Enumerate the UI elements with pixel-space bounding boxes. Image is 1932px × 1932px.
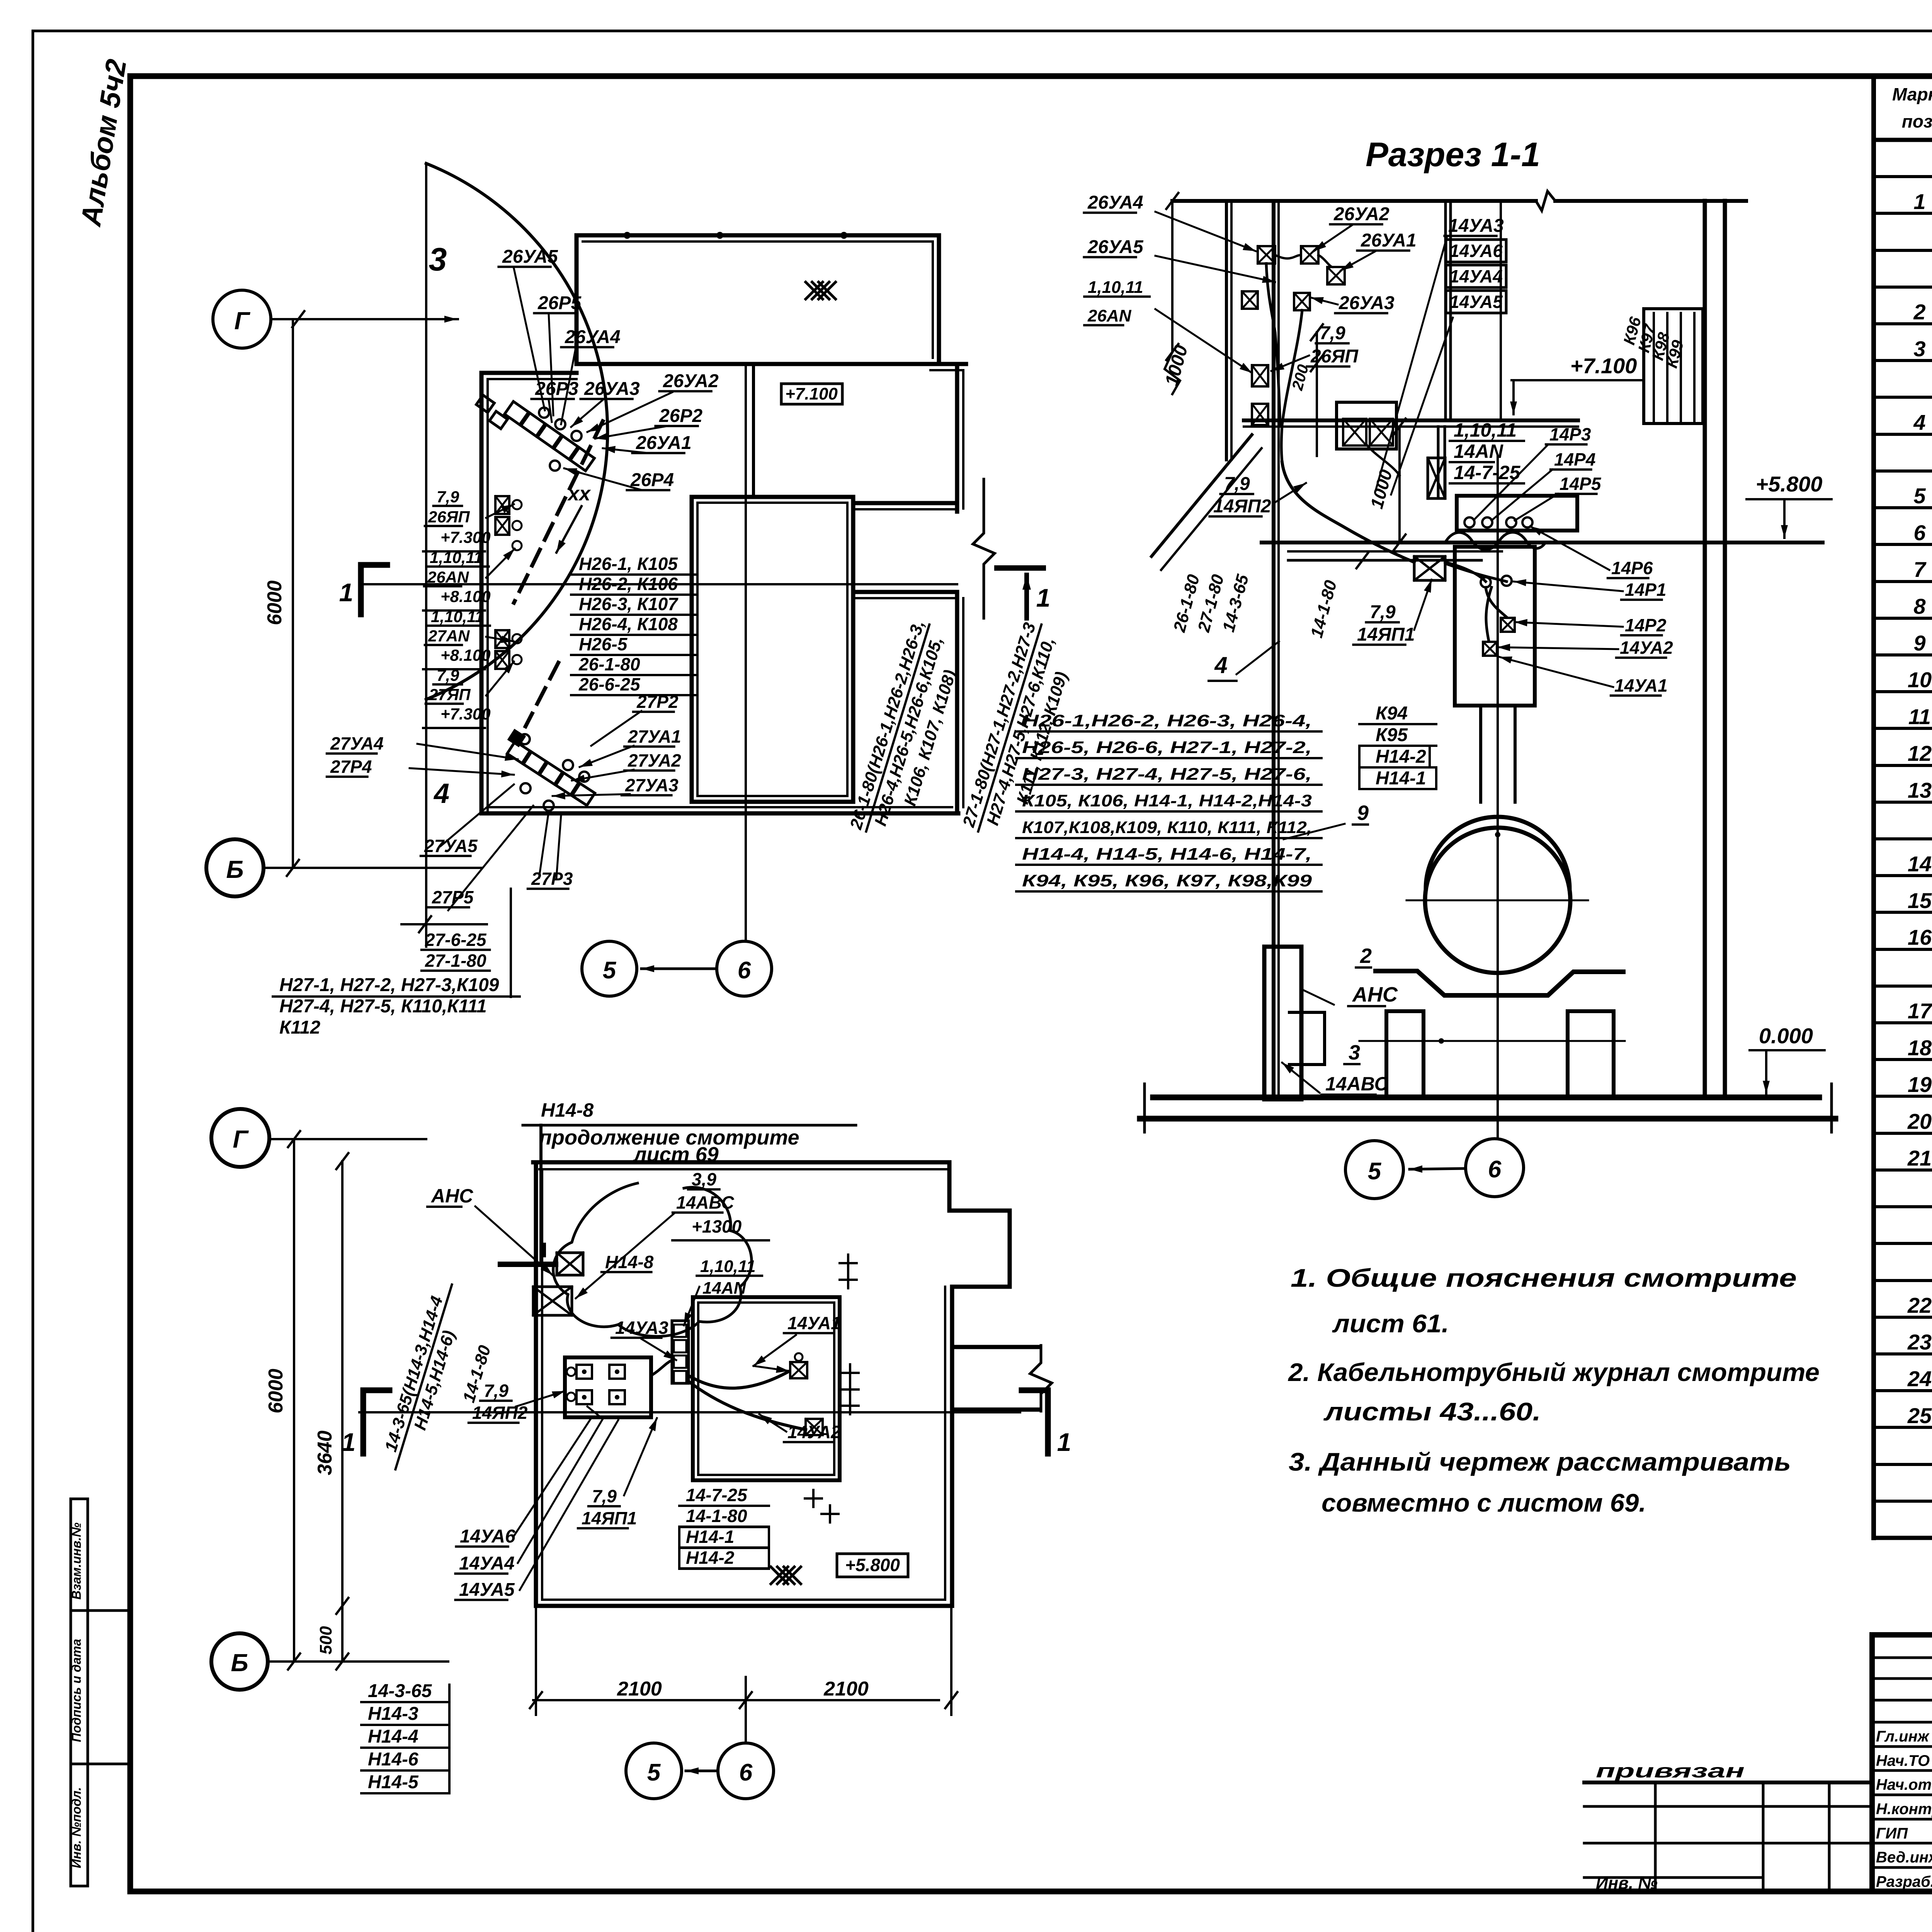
axis 6 line (view1) bbox=[745, 364, 747, 941]
svg-text:2: 2 bbox=[1360, 944, 1372, 968]
svg-text:14-7-25: 14-7-25 bbox=[1454, 462, 1521, 483]
svg-text:6: 6 bbox=[739, 1759, 753, 1786]
cloud boundary (view2) bbox=[553, 1183, 752, 1337]
svg-text:+7.100: +7.100 bbox=[785, 384, 838, 403]
bottom dimension 2100+2100 (view2) bbox=[533, 1699, 939, 1701]
room top wall (view2) bbox=[533, 1160, 949, 1165]
svg-text:4: 4 bbox=[1214, 652, 1227, 678]
svg-text:Разрез 1-1: Разрез 1-1 bbox=[1366, 135, 1540, 173]
svg-text:Инв. №: Инв. № bbox=[1596, 1874, 1658, 1893]
svg-text:Н26-5, Н26-6, Н27-1, Н27-2,: Н26-5, Н26-6, Н27-1, Н27-2, bbox=[1022, 738, 1312, 757]
svg-text:27АN: 27АN bbox=[428, 627, 470, 645]
svg-text:26УА3: 26УА3 bbox=[584, 379, 640, 399]
rotated cable group 26-1-80 (view1) bbox=[846, 618, 971, 845]
svg-text:1: 1 bbox=[1913, 189, 1925, 214]
top chord line bbox=[1172, 199, 1536, 203]
svg-text:Н26-5: Н26-5 bbox=[579, 634, 628, 654]
wall connector boxes 27ЯП (view1) bbox=[495, 630, 509, 648]
lower column pair bbox=[1437, 427, 1440, 496]
svg-text:+5.800: +5.800 bbox=[845, 1555, 900, 1575]
axis circle Б (view1) bbox=[206, 839, 264, 896]
svg-text:9: 9 bbox=[1913, 631, 1925, 655]
svg-text:Н.контр: Н.контр bbox=[1876, 1801, 1932, 1818]
svg-text:3: 3 bbox=[429, 241, 447, 277]
svg-text:Н14-1: Н14-1 bbox=[1376, 768, 1426, 789]
svg-text:Г: Г bbox=[234, 307, 250, 335]
svg-text:1: 1 bbox=[1057, 1428, 1071, 1456]
break mark (view1) bbox=[973, 479, 995, 618]
svg-text:26-6-25: 26-6-25 bbox=[578, 674, 641, 694]
section flag 1 right (view2) bbox=[1045, 1390, 1051, 1454]
svg-text:Н14-2: Н14-2 bbox=[686, 1548, 735, 1568]
equipment pit rect (view1) bbox=[692, 497, 853, 802]
x-box 14УА1 (view2) bbox=[790, 1362, 807, 1378]
dim 1000 left bbox=[1171, 201, 1173, 352]
dimension 6000 (view2) bbox=[293, 1139, 295, 1662]
svg-text:Н26-1,Н26-2, Н26-3, Н26-4,: Н26-1,Н26-2, Н26-3, Н26-4, bbox=[1022, 711, 1312, 730]
svg-text:14Р1: 14Р1 bbox=[1625, 580, 1666, 600]
dimension 3640/500 (view2) bbox=[341, 1161, 344, 1662]
svg-text:Нач.ТО: Нач.ТО bbox=[1876, 1752, 1930, 1769]
svg-text:8: 8 bbox=[1913, 594, 1926, 618]
axis arrow 5-6 (view2) bbox=[686, 1770, 718, 1772]
wall double left bbox=[1272, 201, 1276, 1097]
svg-text:совместно с листом 69.: совместно с листом 69. bbox=[1321, 1488, 1646, 1517]
svg-text:1,10,11: 1,10,11 bbox=[1088, 278, 1143, 297]
svg-text:+8.100: +8.100 bbox=[440, 587, 491, 605]
svg-text:27УА3: 27УА3 bbox=[625, 775, 679, 795]
hatch symbol (view1) bbox=[806, 282, 835, 299]
cables (view2) bbox=[689, 1372, 788, 1388]
svg-text:26УА1: 26УА1 bbox=[636, 433, 692, 453]
svg-text:7,9: 7,9 bbox=[592, 1486, 617, 1506]
axis line Г (view1) bbox=[271, 318, 458, 320]
svg-text:14Р6: 14Р6 bbox=[1611, 558, 1653, 578]
level box +5.800 (view2) bbox=[837, 1554, 908, 1577]
АНС cabinet bbox=[1264, 947, 1301, 1099]
level box +7.100 (view1) bbox=[781, 384, 842, 404]
svg-text:26УА4: 26УА4 bbox=[1087, 192, 1143, 213]
svg-text:14АВС: 14АВС bbox=[1325, 1073, 1389, 1095]
svg-text:26УА2: 26УА2 bbox=[1333, 204, 1389, 224]
axis arrow 5-6 (view1) bbox=[641, 968, 717, 970]
corridor wall top (view1) bbox=[853, 501, 957, 505]
svg-text:2: 2 bbox=[1913, 300, 1925, 324]
svg-text:Н14-3: Н14-3 bbox=[368, 1704, 418, 1724]
svg-text:7,9: 7,9 bbox=[437, 488, 459, 506]
svg-text:+7.300: +7.300 bbox=[440, 528, 491, 546]
dim 1000 mid bbox=[1398, 427, 1401, 543]
rotated cable group 14-3-65 (view2) bbox=[377, 1279, 472, 1476]
svg-text:К94: К94 bbox=[1376, 703, 1408, 724]
svg-text:К94, К95, К96, К97, К98,К99: К94, К95, К96, К97, К98,К99 bbox=[1022, 871, 1312, 890]
svg-text:14АN: 14АN bbox=[702, 1279, 747, 1298]
svg-text:26ЯП: 26ЯП bbox=[1310, 346, 1359, 367]
svg-text:поз.: поз. bbox=[1902, 111, 1932, 131]
svg-text:22: 22 bbox=[1907, 1293, 1932, 1317]
svg-text:Н14-2: Н14-2 bbox=[1376, 747, 1426, 767]
svg-text:12: 12 bbox=[1908, 741, 1932, 765]
axis circle 5 (section) bbox=[1345, 1141, 1403, 1199]
room bottom wall (view2) bbox=[536, 1604, 952, 1608]
inventory strip left of title block bbox=[1584, 1781, 1872, 1784]
floor +5.800 bbox=[1262, 541, 1823, 544]
svg-text:14АВС: 14АВС bbox=[676, 1192, 734, 1213]
connector strip (view2) bbox=[672, 1321, 689, 1383]
box 14ЯП1 bbox=[1414, 556, 1445, 580]
svg-text:23: 23 bbox=[1907, 1330, 1932, 1354]
support block right bbox=[1568, 1011, 1614, 1097]
svg-text:Н27-3, Н27-4, Н27-5, Н27-6,: Н27-3, Н27-4, Н27-5, Н27-6, bbox=[1022, 765, 1312, 784]
svg-text:+5.800: +5.800 bbox=[1756, 472, 1823, 496]
svg-text:5: 5 bbox=[1913, 484, 1926, 508]
svg-text:10: 10 bbox=[1908, 668, 1932, 692]
svg-text:7,9: 7,9 bbox=[484, 1381, 509, 1401]
axis line Г (view2) bbox=[269, 1138, 426, 1140]
center thin line upper bbox=[1500, 201, 1502, 420]
svg-text:19: 19 bbox=[1908, 1072, 1932, 1097]
svg-text:3: 3 bbox=[1913, 337, 1925, 361]
svg-text:14Р2: 14Р2 bbox=[1625, 615, 1667, 635]
svg-text:27УА4: 27УА4 bbox=[330, 733, 384, 753]
svg-text:Инв. №подл.: Инв. №подл. bbox=[69, 1787, 83, 1868]
rotated cable group 27-1-80 (view1) bbox=[959, 619, 1083, 844]
svg-text:15: 15 bbox=[1908, 888, 1932, 913]
svg-text:1,10,11: 1,10,11 bbox=[430, 548, 483, 566]
svg-text:1: 1 bbox=[339, 578, 354, 607]
room bottom wall (view1) bbox=[481, 811, 958, 816]
wires below floor bbox=[1445, 562, 1507, 582]
svg-text:Подпись и дата: Подпись и дата bbox=[69, 1639, 83, 1742]
svg-text:24: 24 bbox=[1907, 1367, 1932, 1391]
column right bbox=[1703, 201, 1707, 1097]
svg-text:14-3-65: 14-3-65 bbox=[368, 1681, 432, 1701]
svg-text:9: 9 bbox=[1357, 801, 1369, 825]
svg-text:14УА6: 14УА6 bbox=[460, 1526, 515, 1547]
svg-text:Н14-4: Н14-4 bbox=[368, 1726, 418, 1747]
inner hall rect (view2) bbox=[693, 1297, 840, 1480]
svg-text:Н14-5: Н14-5 bbox=[368, 1772, 419, 1793]
svg-text:27УА1: 27УА1 bbox=[628, 726, 681, 747]
svg-text:27-1-80: 27-1-80 bbox=[425, 951, 486, 971]
parts table grid bbox=[1871, 76, 1876, 1538]
wall connector boxes 26ЯП (view1) bbox=[495, 496, 509, 514]
room right wall upper (view1) bbox=[955, 367, 959, 512]
svg-text:Н26-1, К105: Н26-1, К105 bbox=[579, 554, 678, 574]
svg-text:Вед.инж: Вед.инж bbox=[1876, 1849, 1932, 1866]
axis circle 6 (view2) bbox=[718, 1743, 774, 1799]
svg-text:7,9: 7,9 bbox=[1320, 323, 1345, 344]
push-button post cluster 27 (view1) bbox=[507, 742, 595, 806]
saddle bbox=[1376, 971, 1623, 995]
section flag 1 right (view1) bbox=[997, 565, 1043, 571]
svg-text:5: 5 bbox=[603, 957, 617, 984]
ground line bbox=[1153, 1095, 1819, 1100]
svg-text:привязан: привязан bbox=[1596, 1760, 1745, 1782]
svg-text:13: 13 bbox=[1908, 778, 1932, 802]
svg-text:3,9: 3,9 bbox=[692, 1169, 716, 1189]
svg-text:18: 18 bbox=[1908, 1036, 1932, 1060]
axis circle 5 (view2) bbox=[626, 1743, 682, 1799]
svg-text:26УА4: 26УА4 bbox=[565, 327, 621, 347]
axis arrow 5-6 (section) bbox=[1410, 1168, 1466, 1169]
svg-text:17: 17 bbox=[1908, 999, 1932, 1023]
section line 1-1 (view1) bbox=[359, 583, 957, 585]
dimension 6000 (view1) bbox=[292, 319, 294, 868]
svg-text:14УА1: 14УА1 bbox=[787, 1313, 841, 1333]
svg-text:14ЯП1: 14ЯП1 bbox=[1357, 624, 1415, 645]
break mark (view2) bbox=[1030, 1345, 1052, 1411]
room left wall (view2) bbox=[534, 1162, 538, 1606]
svg-text:14УА6: 14УА6 bbox=[1449, 241, 1503, 261]
svg-text:Б: Б bbox=[231, 1649, 248, 1677]
svg-text:3. Данный чертеж рассматрива: 3. Данный чертеж рассматривать bbox=[1289, 1447, 1791, 1476]
svg-text:1,10,11: 1,10,11 bbox=[700, 1257, 756, 1276]
svg-text:4: 4 bbox=[1913, 410, 1925, 434]
shaft wall left bbox=[1225, 201, 1228, 460]
svg-text:Н14-8: Н14-8 bbox=[541, 1099, 594, 1121]
room right wall lower (view1) bbox=[955, 592, 959, 813]
svg-text:лист 61.: лист 61. bbox=[1332, 1309, 1449, 1338]
svg-text:Н27-4, Н27-5, К110,К111: Н27-4, Н27-5, К110,К111 bbox=[279, 996, 487, 1017]
svg-text:21: 21 bbox=[1907, 1146, 1932, 1170]
H14-8 riser (view2) bbox=[539, 1125, 543, 1262]
svg-text:К112: К112 bbox=[279, 1017, 320, 1038]
svg-text:26УА1: 26УА1 bbox=[1361, 230, 1417, 251]
svg-text:7,9: 7,9 bbox=[1370, 602, 1396, 622]
svg-text:27Р4: 27Р4 bbox=[330, 757, 372, 777]
svg-text:3640: 3640 bbox=[314, 1430, 336, 1475]
svg-text:27Р3: 27Р3 bbox=[531, 869, 573, 889]
svg-text:14-7-25: 14-7-25 bbox=[686, 1485, 748, 1505]
left stamp strip bbox=[71, 1499, 88, 1886]
svg-text:14УА5: 14УА5 bbox=[459, 1580, 515, 1600]
svg-text:+7.100: +7.100 bbox=[1570, 354, 1637, 378]
svg-text:5: 5 bbox=[1368, 1158, 1382, 1185]
svg-text:14Р5: 14Р5 bbox=[1560, 474, 1602, 494]
axis line Б (view1) bbox=[264, 867, 481, 869]
axis circle 6 (view1) bbox=[717, 941, 772, 996]
svg-text:ГИП: ГИП bbox=[1876, 1825, 1908, 1842]
svg-text:7,9: 7,9 bbox=[437, 666, 459, 684]
svg-text:2100: 2100 bbox=[823, 1678, 869, 1700]
tank circle bbox=[1425, 828, 1570, 973]
dim 200 bbox=[1316, 332, 1318, 456]
svg-text:26Р4: 26Р4 bbox=[630, 470, 674, 490]
svg-text:6000: 6000 bbox=[264, 580, 286, 625]
axis line Б (view2) bbox=[268, 1660, 448, 1663]
wires to 14ЯП1 bbox=[1282, 462, 1414, 562]
svg-text:Взам.инв.№: Взам.инв.№ bbox=[69, 1522, 83, 1600]
axis circle Г (view2) bbox=[211, 1109, 269, 1167]
wall connectors 26ЯП bbox=[1252, 365, 1268, 386]
svg-text:+1300: +1300 bbox=[692, 1216, 742, 1236]
svg-text:6: 6 bbox=[1913, 520, 1926, 545]
svg-text:Н14-4, Н14-5, Н14-6, Н14-7,: Н14-4, Н14-5, Н14-6, Н14-7, bbox=[1022, 845, 1312, 864]
svg-text:5: 5 bbox=[647, 1759, 661, 1786]
connector at slab bbox=[1428, 458, 1445, 498]
top device boxes 26 bbox=[1258, 246, 1275, 264]
svg-text:14УА3: 14УА3 bbox=[615, 1318, 668, 1338]
leaders cluster 27 (view1) bbox=[417, 744, 518, 759]
upper column pair bbox=[1444, 201, 1447, 420]
svg-text:Б: Б bbox=[226, 855, 243, 883]
svg-text:11: 11 bbox=[1908, 704, 1931, 729]
svg-text:14Р3: 14Р3 bbox=[1549, 424, 1591, 444]
support block left bbox=[1386, 1011, 1423, 1097]
axis circle 6 (section) bbox=[1466, 1139, 1524, 1197]
svg-text:+7.300: +7.300 bbox=[440, 705, 491, 723]
svg-text:Н14-8: Н14-8 bbox=[605, 1252, 654, 1272]
mid connector housing bbox=[1337, 402, 1396, 449]
svg-text:Н26-2, К106: Н26-2, К106 bbox=[579, 574, 678, 594]
svg-text:6: 6 bbox=[1488, 1156, 1502, 1183]
svg-text:К105, К106, Н14-1, Н14-2,Н14-3: К105, К106, Н14-1, Н14-2,Н14-3 bbox=[1022, 791, 1312, 810]
svg-text:АНС: АНС bbox=[1352, 983, 1398, 1006]
svg-text:1: 1 bbox=[1036, 583, 1051, 612]
svg-text:16: 16 bbox=[1908, 925, 1932, 949]
svg-text:2. Кабельнотрубный журнал см: 2. Кабельнотрубный журнал смотрите bbox=[1287, 1358, 1820, 1386]
x-box 14УА2 (view2) bbox=[806, 1419, 823, 1435]
hatch symbol (view2) bbox=[771, 1567, 801, 1584]
svg-text:27УА5: 27УА5 bbox=[424, 836, 478, 856]
svg-text:1. Общие пояснения смотрите: 1. Общие пояснения смотрите bbox=[1291, 1264, 1797, 1292]
top-right notch (view2) bbox=[947, 1162, 952, 1211]
corridor wall bottom (view1) bbox=[853, 590, 957, 594]
svg-text:xx: xx bbox=[567, 483, 591, 505]
top device wires bbox=[1275, 255, 1332, 267]
couplings on floor bbox=[1464, 517, 1475, 527]
svg-text:1: 1 bbox=[342, 1428, 356, 1456]
axis circle Б (view2) bbox=[211, 1633, 268, 1690]
svg-text:6000: 6000 bbox=[265, 1369, 287, 1413]
tank upper arc bbox=[1426, 817, 1570, 889]
roof diagonals bbox=[1151, 435, 1252, 556]
svg-text:27Р2: 27Р2 bbox=[636, 692, 679, 712]
svg-text:3: 3 bbox=[1349, 1041, 1360, 1064]
svg-text:К107,К108,К109, К110, К111, К1: К107,К108,К109, К110, К111, К112, bbox=[1022, 818, 1312, 837]
room walls upper rect (view1) bbox=[577, 235, 939, 364]
svg-text:Гл.инж: Гл.инж bbox=[1876, 1728, 1930, 1745]
svg-text:26УА3: 26УА3 bbox=[1338, 293, 1395, 313]
svg-text:14УА3: 14УА3 bbox=[1448, 216, 1504, 236]
svg-text:+8.100: +8.100 bbox=[440, 646, 491, 664]
svg-text:14УА4: 14УА4 bbox=[1449, 266, 1503, 286]
cable shaft К96-К99 bbox=[1644, 309, 1703, 423]
svg-text:АНС: АНС bbox=[430, 1185, 473, 1207]
slab +7.100 bbox=[1244, 418, 1578, 422]
svg-text:14УА5: 14УА5 bbox=[1449, 292, 1503, 312]
svg-text:1,10,11: 1,10,11 bbox=[1454, 419, 1517, 441]
device cluster box (view2) bbox=[565, 1357, 651, 1417]
svg-text:27ЯП: 27ЯП bbox=[429, 685, 471, 704]
svg-text:14Р4: 14Р4 bbox=[1554, 449, 1595, 469]
svg-text:Н14-1: Н14-1 bbox=[686, 1527, 734, 1547]
svg-text:Г: Г bbox=[233, 1125, 249, 1153]
svg-text:26УА5: 26УА5 bbox=[502, 247, 558, 267]
svg-text:14АN: 14АN bbox=[1454, 440, 1503, 462]
svg-text:26-1-80: 26-1-80 bbox=[578, 654, 640, 674]
svg-text:14УА2: 14УА2 bbox=[1620, 638, 1673, 658]
svg-text:26УА5: 26УА5 bbox=[1087, 237, 1144, 257]
svg-text:К95: К95 bbox=[1376, 725, 1408, 745]
svg-text:2100: 2100 bbox=[617, 1678, 662, 1700]
svg-text:листы 43...60.: листы 43...60. bbox=[1323, 1397, 1541, 1426]
section flag 1 left (view2) bbox=[361, 1390, 366, 1454]
svg-text:14ЯП1: 14ЯП1 bbox=[582, 1508, 637, 1528]
push-button post cluster 26 (view1) bbox=[505, 401, 595, 471]
svg-text:14УА2: 14УА2 bbox=[787, 1422, 841, 1442]
section line 1-1 (view2) bbox=[359, 1411, 1020, 1413]
title block frame bbox=[1872, 1635, 1932, 1891]
svg-text:14-1-80: 14-1-80 bbox=[686, 1506, 747, 1526]
svg-text:26УА2: 26УА2 bbox=[663, 371, 719, 391]
cabinet symbol АНС (view2) bbox=[557, 1253, 583, 1275]
svg-text:4: 4 bbox=[433, 778, 449, 809]
beam on slab bbox=[1457, 496, 1577, 531]
leader line H14-8 (view2) bbox=[523, 1124, 856, 1127]
svg-text:14УА1: 14УА1 bbox=[1614, 675, 1668, 696]
tank center cross bbox=[1406, 900, 1588, 901]
conduit dashed risers (view1) bbox=[514, 421, 603, 603]
svg-text:Н26-3, К107: Н26-3, К107 bbox=[579, 594, 679, 614]
svg-text:7: 7 bbox=[1913, 557, 1927, 582]
svg-text:7,9: 7,9 bbox=[1224, 474, 1250, 494]
plus marks (view2) bbox=[840, 1255, 857, 1272]
svg-text:Н27-1, Н27-2, Н27-3,К109: Н27-1, Н27-2, Н27-3,К109 bbox=[279, 975, 499, 995]
corridor walls (view2) bbox=[952, 1345, 1039, 1349]
svg-text:Разраб.: Разраб. bbox=[1876, 1873, 1932, 1890]
svg-text:14УА4: 14УА4 bbox=[459, 1553, 515, 1574]
svg-text:20: 20 bbox=[1907, 1109, 1932, 1133]
svg-text:Н14-6: Н14-6 bbox=[368, 1749, 418, 1770]
silo wall arc (view1) bbox=[426, 163, 607, 699]
svg-text:0.000: 0.000 bbox=[1759, 1024, 1813, 1048]
svg-text:27УА2: 27УА2 bbox=[628, 750, 681, 770]
svg-text:Н26-4, К108: Н26-4, К108 bbox=[579, 614, 678, 634]
svg-text:500: 500 bbox=[316, 1626, 335, 1655]
svg-text:25: 25 bbox=[1907, 1403, 1932, 1428]
svg-text:1,10,11: 1,10,11 bbox=[431, 607, 484, 626]
svg-text:Марка: Марка bbox=[1892, 84, 1932, 104]
axis circle 5 (view1) bbox=[582, 941, 637, 996]
svg-text:14: 14 bbox=[1908, 852, 1932, 876]
centerline bbox=[1497, 456, 1499, 1139]
leaders cluster 26 (view1) bbox=[514, 269, 545, 410]
room left wall (view1) bbox=[480, 373, 484, 813]
pedestal bbox=[1455, 547, 1535, 706]
room right wall (view2) bbox=[950, 1287, 954, 1606]
section flag 1 left (view1) bbox=[358, 565, 364, 614]
rail axis line bbox=[1359, 1040, 1625, 1042]
svg-text:26АN: 26АN bbox=[1087, 306, 1132, 325]
wall step segment (view1) bbox=[930, 362, 966, 366]
svg-text:6: 6 bbox=[738, 957, 751, 984]
svg-text:Нач.отд: Нач.отд bbox=[1876, 1776, 1932, 1793]
axis circle Г (view1) bbox=[213, 290, 271, 348]
svg-text:27-6-25: 27-6-25 bbox=[425, 930, 487, 950]
svg-text:14ЯП2: 14ЯП2 bbox=[1213, 496, 1271, 517]
svg-text:26Р2: 26Р2 bbox=[659, 406, 702, 426]
svg-text:26ЯП: 26ЯП bbox=[428, 508, 470, 526]
svg-text:26Р5: 26Р5 bbox=[537, 293, 582, 313]
svg-text:26АN: 26АN bbox=[427, 568, 469, 586]
